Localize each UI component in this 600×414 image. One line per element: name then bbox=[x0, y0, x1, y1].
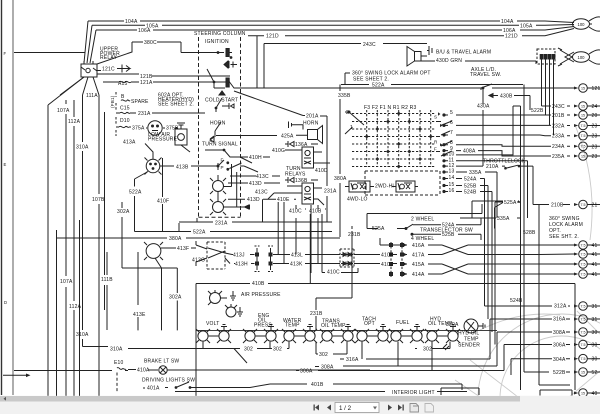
svg-text:7.5: 7.5 bbox=[581, 304, 586, 308]
svg-text:410B: 410B bbox=[309, 209, 322, 215]
svg-text:23: 23 bbox=[592, 144, 598, 150]
svg-text:233A: 233A bbox=[552, 134, 565, 140]
svg-text:231A: 231A bbox=[215, 220, 228, 226]
svg-text:100: 100 bbox=[578, 22, 586, 27]
svg-text:425A: 425A bbox=[281, 134, 294, 140]
svg-text:30: 30 bbox=[592, 357, 598, 363]
svg-text:SEE SHT. 2.: SEE SHT. 2. bbox=[549, 234, 579, 240]
svg-text:401B: 401B bbox=[311, 382, 324, 388]
svg-text:380C: 380C bbox=[144, 40, 157, 46]
svg-text:231B: 231B bbox=[348, 232, 361, 238]
svg-text:430B: 430B bbox=[500, 94, 513, 100]
svg-text:316A: 316A bbox=[346, 357, 359, 363]
svg-text:B/U & TRAVEL ALARM: B/U & TRAVEL ALARM bbox=[436, 50, 491, 56]
svg-text:401A: 401A bbox=[147, 386, 160, 392]
svg-text:413J: 413J bbox=[233, 253, 245, 259]
svg-text:306A: 306A bbox=[300, 369, 313, 375]
svg-text:15: 15 bbox=[581, 113, 585, 117]
svg-text:413H: 413H bbox=[235, 262, 248, 268]
svg-text:121: 121 bbox=[592, 86, 600, 92]
svg-text:5: 5 bbox=[450, 110, 453, 116]
svg-text:23: 23 bbox=[592, 154, 598, 160]
svg-text:525B: 525B bbox=[442, 232, 455, 238]
svg-text:235A: 235A bbox=[552, 154, 565, 160]
svg-text:413A: 413A bbox=[123, 140, 136, 146]
svg-text:15: 15 bbox=[581, 154, 585, 158]
svg-text:C15: C15 bbox=[120, 106, 130, 112]
svg-text:528B: 528B bbox=[523, 230, 536, 236]
svg-text:308A: 308A bbox=[553, 330, 566, 336]
svg-text:30: 30 bbox=[592, 330, 598, 336]
svg-text:COLD START: COLD START bbox=[205, 98, 238, 104]
svg-text:375A: 375A bbox=[132, 126, 145, 132]
svg-text:524B: 524B bbox=[464, 190, 477, 196]
svg-text:RELAYS: RELAYS bbox=[285, 172, 306, 178]
svg-text:21: 21 bbox=[592, 203, 598, 209]
svg-text:410G: 410G bbox=[272, 148, 285, 154]
svg-text:306A: 306A bbox=[553, 343, 566, 349]
svg-text:112A: 112A bbox=[69, 304, 82, 310]
svg-text:243C: 243C bbox=[552, 104, 565, 110]
svg-text:15: 15 bbox=[581, 391, 585, 395]
svg-text:312A: 312A bbox=[554, 304, 567, 310]
svg-text:107A: 107A bbox=[57, 108, 70, 114]
svg-text:320A: 320A bbox=[446, 322, 459, 328]
svg-text:7.5: 7.5 bbox=[581, 252, 586, 256]
svg-text:522A: 522A bbox=[193, 229, 206, 235]
svg-text:B: B bbox=[121, 94, 125, 100]
svg-text:F: F bbox=[434, 147, 437, 152]
svg-text:7.5: 7.5 bbox=[581, 272, 586, 276]
svg-text:7.5: 7.5 bbox=[581, 243, 586, 247]
svg-text:14: 14 bbox=[449, 175, 455, 181]
svg-text:121C: 121C bbox=[102, 67, 115, 73]
svg-text:310A: 310A bbox=[76, 332, 89, 338]
svg-text:524A: 524A bbox=[464, 177, 477, 183]
svg-text:430D GRN: 430D GRN bbox=[436, 58, 462, 64]
svg-text:380A: 380A bbox=[334, 176, 347, 182]
svg-text:S: S bbox=[434, 115, 437, 120]
svg-text:P: P bbox=[221, 165, 224, 170]
svg-text:1: 1 bbox=[350, 125, 353, 131]
svg-text:6: 6 bbox=[450, 120, 453, 126]
svg-text:2 WHEEL: 2 WHEEL bbox=[411, 217, 434, 223]
svg-text:243C: 243C bbox=[363, 42, 376, 48]
svg-text:(FB1): (FB1) bbox=[110, 95, 115, 108]
svg-text:413B: 413B bbox=[176, 165, 189, 171]
svg-text:410K: 410K bbox=[381, 253, 394, 259]
svg-text:335A: 335A bbox=[497, 216, 510, 222]
svg-text:310A: 310A bbox=[76, 145, 89, 151]
svg-text:302A: 302A bbox=[169, 295, 182, 301]
svg-text:23: 23 bbox=[592, 124, 598, 130]
svg-text:F3 F2 F1 N R1 R2 R3: F3 F2 F1 N R1 R2 R3 bbox=[364, 105, 416, 111]
svg-text:D: D bbox=[4, 300, 7, 305]
svg-text:410C: 410C bbox=[289, 209, 302, 215]
svg-text:136A: 136A bbox=[295, 142, 308, 148]
svg-text:210A: 210A bbox=[486, 164, 499, 170]
svg-text:335B: 335B bbox=[338, 93, 351, 99]
svg-text:522B: 522B bbox=[553, 370, 566, 376]
svg-text:VOLT: VOLT bbox=[206, 321, 220, 327]
svg-text:100: 100 bbox=[578, 55, 586, 60]
svg-text:30: 30 bbox=[592, 343, 598, 349]
svg-text:335A: 335A bbox=[469, 170, 482, 176]
svg-text:31: 31 bbox=[592, 317, 598, 323]
svg-text:7.5: 7.5 bbox=[581, 343, 586, 347]
svg-text:111B: 111B bbox=[101, 277, 113, 283]
svg-text:41: 41 bbox=[592, 262, 598, 268]
svg-text:7: 7 bbox=[450, 130, 453, 136]
svg-text:107B: 107B bbox=[92, 197, 105, 203]
svg-text:107A: 107A bbox=[60, 279, 73, 285]
svg-text:408A: 408A bbox=[463, 149, 476, 155]
svg-text:31: 31 bbox=[592, 304, 598, 310]
svg-text:7.5: 7.5 bbox=[581, 317, 586, 321]
svg-text:413C: 413C bbox=[256, 174, 269, 180]
svg-text:413D: 413D bbox=[249, 181, 262, 187]
svg-text:524B: 524B bbox=[510, 298, 523, 304]
svg-text:7.5: 7.5 bbox=[581, 124, 586, 128]
svg-text:A15: A15 bbox=[118, 81, 128, 87]
svg-text:41: 41 bbox=[592, 252, 598, 258]
svg-text:7.5: 7.5 bbox=[581, 134, 586, 138]
svg-text:410J: 410J bbox=[381, 262, 393, 268]
svg-text:TURN SIGNAL: TURN SIGNAL bbox=[202, 142, 238, 148]
svg-text:20: 20 bbox=[592, 113, 598, 119]
svg-text:7.5: 7.5 bbox=[581, 262, 586, 266]
svg-text:16: 16 bbox=[449, 188, 455, 194]
svg-text:SEE SHEET 2.: SEE SHEET 2. bbox=[158, 102, 194, 108]
svg-text:210B: 210B bbox=[551, 202, 564, 208]
svg-text:410C: 410C bbox=[327, 270, 340, 276]
svg-text:E: E bbox=[4, 162, 7, 167]
svg-text:111A: 111A bbox=[86, 93, 98, 99]
svg-text:HORN: HORN bbox=[303, 121, 319, 127]
svg-text:1 / 2: 1 / 2 bbox=[339, 405, 352, 412]
svg-text:525A: 525A bbox=[372, 226, 385, 232]
svg-text:7.5: 7.5 bbox=[581, 357, 586, 361]
svg-text:23: 23 bbox=[592, 134, 598, 140]
svg-text:410F: 410F bbox=[157, 198, 169, 204]
svg-text:E10: E10 bbox=[114, 360, 124, 366]
svg-text:302: 302 bbox=[244, 347, 253, 353]
svg-text:413D: 413D bbox=[247, 197, 260, 203]
svg-text:415A: 415A bbox=[412, 262, 425, 268]
svg-text:232A: 232A bbox=[552, 123, 565, 129]
svg-text:201B: 201B bbox=[552, 113, 565, 119]
svg-text:52: 52 bbox=[592, 370, 598, 376]
svg-text:410H: 410H bbox=[249, 155, 262, 161]
svg-text:414A: 414A bbox=[412, 272, 425, 278]
svg-text:DRIVING LIGHTS SW: DRIVING LIGHTS SW bbox=[142, 378, 195, 384]
svg-text:OPT: OPT bbox=[364, 321, 375, 327]
svg-text:TRAVEL SW.: TRAVEL SW. bbox=[470, 72, 501, 78]
svg-text:413E: 413E bbox=[133, 312, 146, 318]
svg-text:310A: 310A bbox=[110, 347, 123, 353]
svg-text:15: 15 bbox=[581, 86, 585, 90]
svg-text:41: 41 bbox=[592, 243, 598, 249]
svg-text:15: 15 bbox=[581, 370, 585, 374]
svg-text:302: 302 bbox=[319, 352, 328, 358]
svg-text:PRESSURE: PRESSURE bbox=[148, 137, 178, 143]
svg-text:F: F bbox=[221, 158, 224, 163]
svg-text:IGNITION: IGNITION bbox=[205, 39, 229, 45]
svg-text:FUEL: FUEL bbox=[396, 320, 410, 326]
svg-text:201A: 201A bbox=[306, 114, 319, 120]
svg-text:231A: 231A bbox=[324, 189, 337, 195]
svg-text:STEERING COLUMN: STEERING COLUMN bbox=[194, 31, 246, 37]
svg-text:104A: 104A bbox=[125, 19, 138, 25]
svg-text:136B: 136B bbox=[295, 178, 308, 184]
svg-text:525A: 525A bbox=[504, 200, 517, 206]
svg-text:430A: 430A bbox=[477, 104, 490, 110]
svg-text:13: 13 bbox=[449, 169, 455, 175]
svg-text:RELAY: RELAY bbox=[100, 55, 117, 61]
svg-text:121A: 121A bbox=[140, 80, 153, 86]
svg-text:413L: 413L bbox=[291, 253, 303, 259]
svg-text:410D: 410D bbox=[315, 168, 328, 174]
svg-text:SPARE: SPARE bbox=[131, 99, 149, 105]
svg-text:302A: 302A bbox=[117, 209, 130, 215]
svg-text:OIL TEMP: OIL TEMP bbox=[321, 323, 346, 329]
svg-text:302: 302 bbox=[273, 347, 282, 353]
svg-text:15: 15 bbox=[581, 104, 585, 108]
svg-text:HORN: HORN bbox=[210, 121, 226, 127]
svg-text:2: 2 bbox=[346, 110, 349, 116]
svg-text:413K: 413K bbox=[290, 262, 303, 268]
svg-text:7.5: 7.5 bbox=[581, 145, 586, 149]
svg-text:INTERIOR LIGHT: INTERIOR LIGHT bbox=[392, 390, 435, 396]
svg-text:121D: 121D bbox=[266, 34, 279, 40]
svg-text:308A: 308A bbox=[321, 365, 334, 371]
svg-text:304A: 304A bbox=[553, 357, 566, 363]
svg-text:112A: 112A bbox=[68, 119, 81, 125]
svg-text:413F: 413F bbox=[177, 246, 189, 252]
svg-text:7.5: 7.5 bbox=[581, 203, 586, 207]
svg-text:R: R bbox=[434, 140, 438, 145]
svg-text:410A: 410A bbox=[137, 368, 150, 374]
svg-text:SENDER: SENDER bbox=[458, 343, 480, 349]
svg-text:4WD-LO: 4WD-LO bbox=[347, 197, 368, 203]
svg-text:522A: 522A bbox=[129, 189, 142, 195]
svg-text:105A: 105A bbox=[520, 23, 533, 29]
svg-text:413C: 413C bbox=[255, 190, 268, 196]
svg-text:231B: 231B bbox=[310, 311, 323, 317]
svg-text:2WD-HI: 2WD-HI bbox=[375, 184, 394, 190]
svg-text:7.5: 7.5 bbox=[581, 330, 586, 334]
svg-text:TEMP: TEMP bbox=[285, 323, 300, 329]
svg-text:SEE SHEET 2.: SEE SHEET 2. bbox=[353, 77, 389, 83]
svg-text:417A: 417A bbox=[412, 253, 425, 259]
svg-text:106A: 106A bbox=[138, 28, 151, 34]
svg-text:AIR PRESSURE: AIR PRESSURE bbox=[241, 292, 281, 298]
svg-text:4 WHEEL: 4 WHEEL bbox=[411, 236, 434, 242]
svg-text:24: 24 bbox=[592, 104, 598, 110]
svg-text:410E: 410E bbox=[277, 197, 290, 203]
svg-text:PRESS: PRESS bbox=[254, 323, 272, 329]
svg-text:231A: 231A bbox=[138, 111, 151, 117]
svg-text:104A: 104A bbox=[501, 19, 514, 25]
svg-text:522B: 522B bbox=[531, 108, 544, 114]
svg-text:380A: 380A bbox=[169, 236, 182, 242]
svg-text:416A: 416A bbox=[412, 243, 425, 249]
svg-text:D10: D10 bbox=[120, 118, 130, 124]
svg-text:316A: 316A bbox=[553, 317, 566, 323]
svg-text:BRAKE LT SW: BRAKE LT SW bbox=[144, 359, 179, 365]
svg-text:522A: 522A bbox=[372, 83, 385, 89]
svg-text:375B: 375B bbox=[166, 126, 179, 132]
svg-text:41: 41 bbox=[592, 272, 598, 278]
svg-text:410B: 410B bbox=[252, 281, 265, 287]
svg-text:121D: 121D bbox=[505, 34, 518, 40]
svg-text:F: F bbox=[4, 51, 7, 56]
svg-text:234A: 234A bbox=[552, 144, 565, 150]
svg-text:302: 302 bbox=[423, 347, 432, 353]
svg-text:413G: 413G bbox=[192, 258, 205, 264]
